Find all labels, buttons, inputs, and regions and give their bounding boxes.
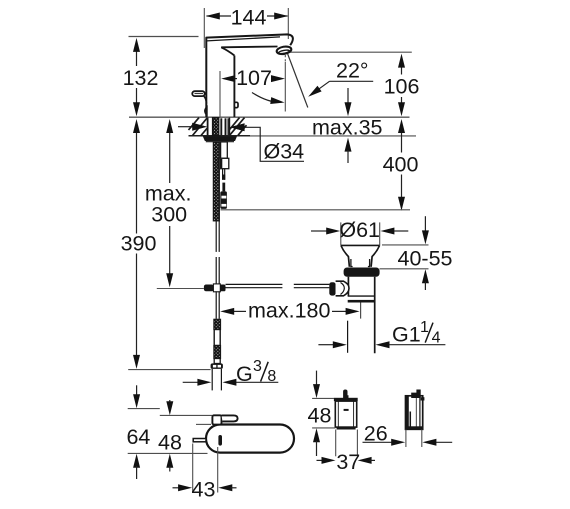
svg-text:48: 48 <box>158 430 182 454</box>
dim 107 extension line left (faucet centre) <box>219 71 221 117</box>
supply pipe stub <box>211 369 213 391</box>
dim 400 arrowheads <box>398 119 405 133</box>
dim 48 (mid) arrows <box>316 371 318 386</box>
faucet spout body outline <box>206 34 293 117</box>
svg-text:106: 106 <box>384 75 420 99</box>
control unit left nub <box>193 439 206 442</box>
pull rod upper segment <box>215 221 217 252</box>
countertop line <box>129 116 410 118</box>
counter hatch left block diagonals <box>189 118 208 136</box>
angle arc with arrowhead <box>252 93 282 103</box>
dim 106 arrowheads <box>398 54 405 68</box>
control unit: bottom reference line <box>128 452 208 454</box>
max.300 arrowheads <box>166 119 173 133</box>
control unit: secondary top line <box>196 423 211 425</box>
lever lower crescent <box>205 107 207 115</box>
threaded mounting rod <box>213 142 219 221</box>
control unit LED slot <box>218 435 222 446</box>
horizontal drain rod left part <box>226 283 283 285</box>
dim 43 arrows <box>173 487 181 489</box>
dim 48 (left) arrows <box>169 400 171 403</box>
dim G1 1/4 arrows <box>318 344 334 346</box>
svg-text:8: 8 <box>267 368 276 385</box>
Ø34 arrowheads overdrawn on hatch <box>192 123 207 131</box>
power unit front: body <box>335 401 356 427</box>
faucet body right edge <box>233 56 235 118</box>
faucet spout second top edge <box>207 37 280 41</box>
horizontal drain rod right part <box>294 283 330 285</box>
svg-text:G: G <box>236 362 253 386</box>
svg-text:Ø61: Ø61 <box>339 218 380 242</box>
dim max.300 dimension line <box>169 131 171 183</box>
dim 107 extension line right (below aerator, dashed at top) <box>284 55 286 62</box>
hose fitting sleeve <box>221 142 228 158</box>
non-return valve <box>220 191 227 209</box>
hose fitting nut <box>218 158 228 168</box>
dim 400 dimension line <box>401 131 403 153</box>
dim 64 arrows <box>136 385 138 396</box>
aerator at spout tip <box>276 45 292 55</box>
water stream line 22deg <box>288 54 308 108</box>
power unit front: label dash <box>344 409 349 411</box>
drain: dim Ø61 extension lines <box>340 222 342 245</box>
svg-text:max.180: max.180 <box>248 299 331 323</box>
pull rod lower segment <box>215 257 217 291</box>
drain tailpipe left edge <box>347 321 349 353</box>
G3/8 connection nut <box>211 363 223 369</box>
dim 106 dimension line <box>401 66 403 75</box>
svg-text:48: 48 <box>308 403 332 427</box>
svg-text:144: 144 <box>231 6 267 30</box>
dim 107 arrowheads <box>221 75 235 82</box>
dim 390 arrowheads <box>133 119 140 133</box>
dim 144 extension line right <box>287 8 289 39</box>
counter section bottom line <box>189 135 251 137</box>
svg-text:3: 3 <box>253 358 262 375</box>
dim 132 arrowheads <box>133 38 140 52</box>
svg-text:390: 390 <box>121 232 157 256</box>
max.35 arrows <box>347 88 349 103</box>
G3/8 hose end lower threaded block <box>214 346 221 359</box>
pull rod below clamp to hose <box>215 291 217 319</box>
drain lever housing <box>329 282 335 295</box>
svg-text:107: 107 <box>236 66 272 90</box>
dim 107 dimension line <box>228 78 237 80</box>
drain O-ring seal <box>344 268 380 277</box>
hose lines in mounting hole <box>220 118 222 135</box>
battery unit side: plug <box>411 390 421 399</box>
control unit: 48 top reference line <box>160 414 212 416</box>
drain body bottom cap <box>348 295 374 297</box>
G3/8 hose end middle block <box>214 330 220 346</box>
dim Ø61 arrows <box>311 230 327 232</box>
G3/8 level reference line (390 bottom) <box>128 369 210 371</box>
svg-text:4: 4 <box>432 329 441 346</box>
mounting hole left wall <box>207 118 209 136</box>
22deg leader line with arrowhead <box>330 80 374 82</box>
svg-text:Ø34: Ø34 <box>264 139 305 163</box>
svg-text:max.35: max.35 <box>312 115 383 139</box>
svg-text:37: 37 <box>336 450 360 474</box>
dim 37 arrows <box>317 459 324 461</box>
threaded shank through counter <box>213 118 219 136</box>
dim 40-55 arrows <box>424 216 426 232</box>
rod end reference line (max.300 bottom) <box>157 288 204 290</box>
40-55 lower reference line <box>380 268 429 270</box>
drain funnel sides <box>341 246 349 267</box>
battery unit side: bottom cap <box>406 426 423 429</box>
max.35 lower reference line <box>247 135 417 137</box>
power unit front: bottom cap <box>337 427 356 430</box>
dim 390 dimension line <box>136 131 138 234</box>
drain centerline extension (max.180 right) <box>360 303 362 319</box>
reference line top of faucet (132 top) <box>129 36 199 38</box>
dim 48 (mid) reference lines <box>312 397 334 399</box>
svg-text:300: 300 <box>151 203 187 227</box>
dim 37 extension lines <box>335 430 337 457</box>
svg-text:400: 400 <box>383 153 419 177</box>
svg-text:132: 132 <box>123 66 159 90</box>
dim 43 extension lines <box>192 444 194 493</box>
control unit oval body <box>206 425 294 453</box>
dim G3/8 arrows <box>183 381 199 383</box>
counter hatch right block diagonals <box>230 118 247 136</box>
control unit connector pill <box>222 415 238 421</box>
faucet neck slant <box>221 47 234 55</box>
control unit: 64 top reference line <box>128 408 160 410</box>
reference line at spout outlet height (106 top) <box>289 51 412 53</box>
dim 144 extension line left <box>203 8 205 48</box>
mounting hole right wall <box>229 118 231 136</box>
power unit front: top cap <box>334 398 358 401</box>
base flange under counter <box>204 137 237 141</box>
svg-text:40-55: 40-55 <box>398 247 453 271</box>
dim 144 arrowheads <box>206 13 220 20</box>
drain body <box>347 277 349 296</box>
valve stem <box>222 169 224 180</box>
rod clamp junction <box>204 285 214 292</box>
dim 132 dimension line <box>136 50 138 66</box>
temperature lever pill <box>192 91 204 96</box>
dim max.180 arrows and label <box>234 310 246 312</box>
faucet spout underside shelf <box>221 46 277 49</box>
dim 26 extension lines <box>405 430 407 447</box>
dim 144 dimension line <box>207 15 232 17</box>
battery unit side: body <box>406 396 423 430</box>
Ø34 leader: arrow tail, corner, underline <box>178 126 193 128</box>
svg-text:1: 1 <box>420 319 429 336</box>
svg-text:G1: G1 <box>392 322 421 346</box>
lever curve down to body <box>204 96 207 104</box>
drain funnel rim <box>341 244 380 246</box>
G3/8 hose end upper threaded block <box>214 319 221 329</box>
40-55 upper reference line <box>382 244 429 246</box>
power unit front: plug <box>343 390 348 399</box>
funnel clip marks <box>351 259 353 267</box>
connection level reference line (400 bottom) <box>221 209 410 211</box>
sensor tab on right edge <box>234 102 238 107</box>
control unit connector block <box>212 415 221 424</box>
svg-text:22°: 22° <box>336 59 369 83</box>
svg-text:64: 64 <box>126 425 150 449</box>
svg-text:43: 43 <box>192 478 216 502</box>
